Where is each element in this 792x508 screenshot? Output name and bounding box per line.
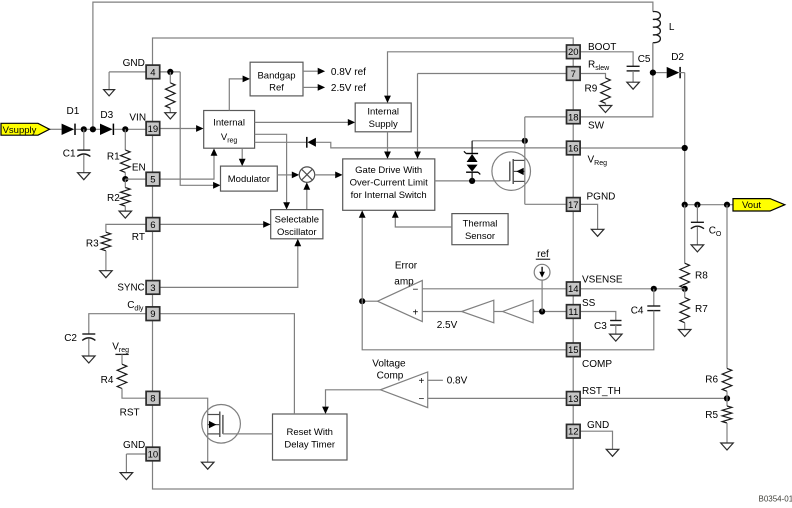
svg-text:Internal: Internal (213, 117, 245, 128)
svg-text:ref: ref (537, 249, 549, 260)
svg-text:R5: R5 (705, 410, 718, 421)
svg-text:R1: R1 (107, 152, 120, 163)
svg-text:SW: SW (588, 121, 605, 132)
svg-text:13: 13 (568, 394, 579, 405)
svg-text:BOOT: BOOT (588, 42, 616, 53)
svg-text:Voltage: Voltage (372, 359, 406, 370)
svg-text:Reset With: Reset With (286, 427, 332, 438)
svg-text:3: 3 (150, 283, 155, 294)
svg-text:R6: R6 (705, 374, 718, 385)
svg-text:C2: C2 (64, 333, 77, 344)
svg-text:R2: R2 (107, 193, 120, 204)
svg-text:Ref: Ref (269, 83, 284, 94)
svg-text:for Internal Switch: for Internal Switch (351, 190, 427, 201)
svg-text:7: 7 (571, 69, 576, 80)
svg-text:SS: SS (582, 298, 596, 309)
svg-text:15: 15 (568, 345, 579, 356)
svg-text:12: 12 (568, 427, 579, 438)
svg-text:L: L (669, 22, 675, 33)
svg-text:Sensor: Sensor (465, 231, 495, 242)
svg-text:11: 11 (568, 307, 578, 318)
svg-text:10: 10 (148, 449, 159, 460)
svg-text:R9: R9 (585, 83, 598, 94)
svg-text:6: 6 (150, 220, 155, 231)
svg-text:D1: D1 (67, 106, 80, 117)
svg-text:14: 14 (568, 284, 579, 295)
svg-text:Supply: Supply (369, 119, 398, 130)
svg-text:19: 19 (148, 124, 159, 135)
svg-text:C1: C1 (63, 148, 76, 159)
svg-text:R7: R7 (695, 304, 708, 315)
svg-text:Oscillator: Oscillator (277, 227, 317, 238)
svg-text:RST_TH: RST_TH (582, 386, 621, 397)
svg-text:C3: C3 (594, 321, 607, 332)
svg-text:+: + (412, 308, 418, 319)
svg-text:+: + (418, 376, 424, 387)
svg-text:PGND: PGND (587, 191, 616, 202)
svg-text:R4: R4 (101, 375, 114, 386)
svg-text:Modulator: Modulator (228, 174, 270, 185)
svg-text:R8: R8 (695, 270, 708, 281)
svg-text:amp: amp (394, 277, 414, 288)
svg-text:8: 8 (150, 394, 155, 405)
svg-text:D2: D2 (671, 52, 684, 63)
svg-text:16: 16 (568, 143, 579, 154)
svg-text:VIN: VIN (129, 113, 146, 124)
svg-text:4: 4 (150, 67, 155, 78)
svg-text:Vsupply: Vsupply (3, 125, 37, 136)
svg-text:GND: GND (587, 420, 609, 431)
svg-text:EN: EN (132, 163, 146, 174)
svg-text:Comp: Comp (377, 371, 404, 382)
svg-text:SYNC: SYNC (117, 283, 144, 294)
svg-text:5: 5 (150, 175, 155, 186)
svg-text:R3: R3 (86, 239, 99, 250)
svg-text:D3: D3 (100, 110, 113, 121)
svg-text:Thermal: Thermal (463, 218, 498, 229)
svg-text:C4: C4 (631, 305, 644, 316)
svg-text:2.5V ref: 2.5V ref (331, 83, 366, 94)
svg-text:GND: GND (123, 440, 145, 451)
svg-text:Over-Current Limit: Over-Current Limit (350, 177, 428, 188)
svg-text:B0354-01: B0354-01 (759, 495, 792, 504)
svg-text:9: 9 (150, 309, 155, 320)
svg-text:Selectable: Selectable (275, 214, 319, 225)
svg-text:0.8V ref: 0.8V ref (331, 67, 366, 78)
svg-text:Error: Error (395, 261, 418, 272)
svg-text:RT: RT (132, 232, 145, 243)
svg-text:Gate Drive With: Gate Drive With (355, 165, 422, 176)
svg-text:Delay Timer: Delay Timer (284, 439, 335, 450)
svg-text:17: 17 (568, 200, 579, 211)
svg-text:Bandgap: Bandgap (257, 70, 295, 81)
svg-text:Vout: Vout (742, 200, 761, 211)
svg-text:0.8V: 0.8V (447, 376, 468, 387)
svg-text:20: 20 (568, 47, 579, 58)
svg-text:2.5V: 2.5V (437, 320, 458, 331)
svg-text:−: − (418, 394, 424, 405)
svg-text:C5: C5 (638, 54, 651, 65)
svg-text:RST: RST (120, 407, 140, 418)
svg-text:GND: GND (123, 58, 145, 69)
svg-text:VSENSE: VSENSE (582, 275, 623, 286)
svg-text:COMP: COMP (582, 359, 612, 370)
svg-text:Internal: Internal (367, 107, 399, 118)
svg-text:18: 18 (568, 112, 579, 123)
